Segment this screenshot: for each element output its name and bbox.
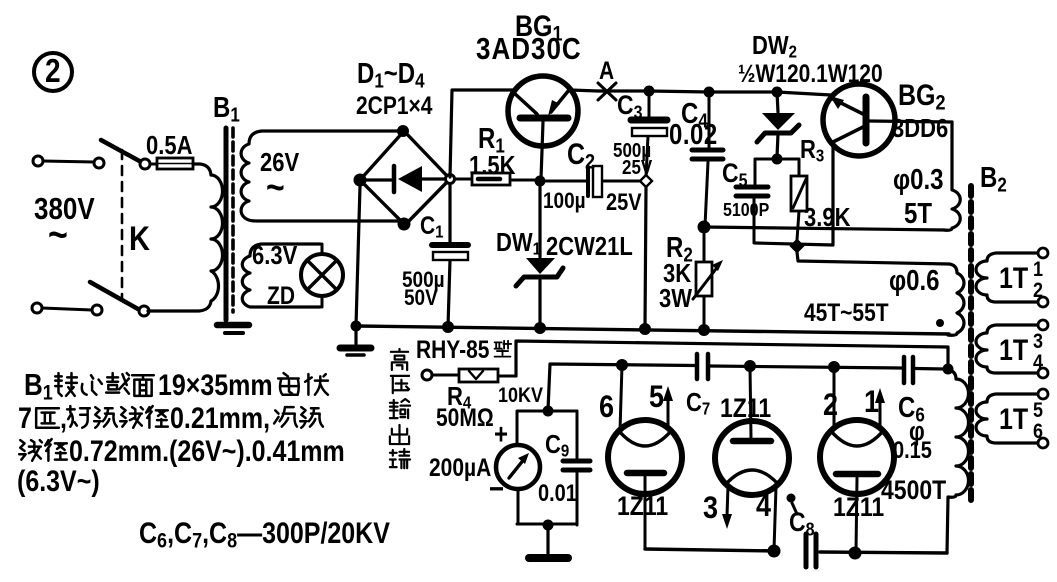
svg-text:A: A [599, 56, 614, 84]
svg-text:6: 6 [599, 389, 614, 425]
capacitor C8 [806, 534, 816, 567]
resistor R4 RHY-85 [432, 369, 516, 382]
svg-text:0.72mm.(26V~).0.41mm: 0.72mm.(26V~).0.41mm [69, 434, 345, 467]
svg-text:5: 5 [649, 379, 664, 415]
svg-text:25V: 25V [622, 156, 653, 179]
diode inside bridge [365, 166, 448, 192]
svg-text:1.5K: 1.5K [469, 151, 516, 180]
node C4 R2 junction [698, 221, 711, 234]
node C4 top [704, 87, 715, 98]
transformer B2 1T winding 1-2 [976, 248, 1048, 307]
svg-text:C6​,C7​,C8​—300P/20KV: C6​,C7​,C8​—300P/20KV [139, 516, 391, 553]
tube U1 1Z11 [608, 365, 682, 549]
transformer B1 core [226, 128, 233, 320]
capacitor C4 [692, 92, 723, 226]
svg-text:5100P: 5100P [723, 199, 770, 221]
svg-text:3DD6: 3DD6 [892, 114, 948, 143]
label C8 with pointer [787, 494, 815, 541]
node tube3 pin2 junction [828, 361, 840, 373]
wire [43, 161, 94, 162]
label 1T pins 3 4 [999, 330, 1043, 375]
wire tubes feed line corner [548, 364, 695, 410]
svg-text:1T: 1T [999, 402, 1028, 435]
label 500u 50V [402, 268, 445, 311]
node meter bottom junction [543, 520, 554, 531]
svg-text:4: 4 [756, 488, 772, 524]
meter 200uA [496, 411, 577, 524]
node DW2 top [772, 87, 783, 98]
svg-text:7: 7 [18, 401, 32, 434]
node R1 C2 DW1 base [535, 176, 546, 187]
svg-text:45T~55T: 45T~55T [804, 298, 889, 326]
transformer B1 6.3V winding [242, 244, 320, 307]
svg-text:RHY-85: RHY-85 [416, 335, 490, 363]
svg-text:0.15: 0.15 [893, 436, 932, 463]
wire C4 junction to 5T winding [704, 227, 944, 230]
svg-text:(6.3V~): (6.3V~) [17, 464, 100, 497]
svg-text:1T: 1T [999, 333, 1028, 366]
node bridge left [354, 174, 367, 187]
resistor R1 [455, 173, 536, 185]
svg-text:2: 2 [45, 53, 61, 90]
wire diamond to feedback winding [797, 252, 949, 264]
figure number 2 [34, 53, 72, 91]
label 26V ~ [260, 148, 299, 208]
node 380V input terminal bottom [32, 303, 42, 313]
label 380V [34, 192, 95, 257]
node switch contact bottom-right [139, 306, 149, 316]
wire tubes bottom line [645, 549, 947, 553]
svg-text:3AD30C: 3AD30C [476, 32, 582, 67]
node diamond R3 bottom [791, 240, 804, 253]
node 380V input terminal top [33, 156, 43, 166]
svg-text:10KV: 10KV [498, 384, 543, 408]
switch K gang linkage dashed [121, 150, 124, 300]
wire C5 bottom to BG2 collector [755, 143, 833, 245]
node tube2 top junction [744, 360, 756, 372]
svg-text:100µ: 100µ [543, 189, 586, 214]
svg-text:50V: 50V [404, 286, 438, 311]
svg-text:1Z11: 1Z11 [833, 492, 884, 522]
svg-text:50MΩ: 50MΩ [436, 403, 494, 431]
capacitor C2 [546, 166, 639, 197]
svg-text:0.01: 0.01 [538, 479, 577, 506]
svg-text:1: 1 [864, 384, 879, 420]
wire BG1 emitter to A bus [570, 90, 598, 91]
svg-text:0.5A: 0.5A [146, 131, 192, 160]
switch K blade top [101, 140, 143, 163]
note line 3: wire dia 0.72mm 26V 0.41mm [19, 434, 345, 467]
svg-text:K: K [129, 219, 150, 258]
capacitor C6 [904, 357, 913, 383]
svg-text:3.9K: 3.9K [804, 203, 851, 232]
svg-text:1T: 1T [999, 261, 1028, 294]
wire top bus [598, 91, 831, 95]
capacitor C1 [432, 184, 468, 327]
svg-text:,: , [60, 401, 67, 434]
label phi 0.15 [893, 417, 932, 463]
svg-text:3: 3 [703, 490, 718, 526]
transformer B2 5T winding [944, 122, 960, 230]
node C3 top [644, 86, 655, 97]
svg-text:ZD: ZD [267, 281, 295, 309]
wire tubes top line [710, 366, 944, 369]
svg-text:19×35mm: 19×35mm [158, 368, 273, 401]
node bridge top [397, 125, 409, 137]
node bus R2 [698, 324, 710, 336]
svg-text:+: + [494, 418, 508, 450]
node bus C1 [442, 321, 454, 333]
label RHY-85 type [416, 335, 511, 363]
transformer B2 core [968, 186, 974, 505]
svg-text:0.21mm,: 0.21mm, [170, 401, 270, 434]
svg-text:2CW21L: 2CW21L [546, 232, 633, 261]
transistor BG2 [823, 84, 952, 156]
node tube2 pin4 bottom [768, 545, 781, 558]
node C6 4500T junction [943, 364, 954, 375]
transformer B2 4500T winding [947, 370, 968, 553]
transformer B2 1T winding 3-4 [976, 320, 1048, 378]
node A test point [598, 56, 616, 100]
tube U3 1Z11 [820, 367, 894, 552]
node switch contact top-right [140, 159, 150, 169]
svg-text:~: ~ [266, 167, 285, 209]
tube U2 1Z11 [715, 366, 789, 550]
node C8 tube3 bottom [849, 547, 862, 560]
svg-text:6: 6 [1033, 420, 1043, 444]
wire BG1 collector to bridge node [450, 90, 513, 177]
svg-text:1Z11: 1Z11 [720, 393, 771, 423]
capacitor C5 [736, 159, 777, 243]
resistor R3 [777, 159, 807, 240]
node switch contact top-left [94, 158, 104, 168]
label 500u 25V (C3) [613, 139, 653, 179]
node bus left [351, 321, 362, 332]
svg-text:25V: 25V [606, 188, 642, 215]
ground meter [529, 525, 568, 558]
svg-text:φ0.3: φ0.3 [893, 163, 944, 195]
rheostat R2 [693, 233, 723, 329]
bridge rectifier D1-D4 [360, 131, 450, 225]
zener DW2 [757, 92, 799, 157]
svg-text:2: 2 [1033, 279, 1043, 303]
wire bridge left to ground bus [356, 186, 360, 326]
svg-text:φ0.6: φ0.6 [889, 264, 940, 296]
svg-text:2CP1×4: 2CP1×4 [356, 91, 433, 119]
transformer B2 1T winding 5-6 [976, 389, 1048, 448]
wire 10KV high voltage line [516, 341, 948, 376]
wire C3 node to ground bus [645, 187, 646, 327]
node tube1 pin6 junction [616, 359, 628, 371]
transistor BG1 [508, 76, 578, 179]
lamp ZD [301, 244, 343, 307]
svg-text:200µA: 200µA [429, 453, 491, 481]
svg-text:D1​~D4​: D1​~D4​ [357, 57, 425, 92]
transformer B2 45T winding [948, 264, 964, 335]
ground B1 core [217, 325, 249, 333]
svg-text:4: 4 [1033, 351, 1043, 375]
svg-text:6.3V: 6.3V [252, 241, 297, 270]
fuse 0.5A [150, 158, 193, 169]
node polarity dot [936, 319, 944, 327]
label 1T pins 1 2 [999, 258, 1043, 303]
node meter top junction [543, 406, 554, 417]
ground at bus left [340, 326, 371, 355]
transformer B1 primary winding [148, 164, 223, 311]
capacitor C3 [631, 92, 667, 177]
svg-text:4500T: 4500T [881, 475, 947, 505]
capacitor C7 [697, 354, 708, 379]
label HV output terminal vertical text [390, 349, 410, 468]
node bridge right [446, 175, 455, 184]
svg-text:3W: 3W [659, 284, 692, 313]
note line 2: 7 turns primary wire 0.21mm [18, 401, 323, 434]
node HV output terminal [422, 370, 432, 380]
node switch contact bottom-left [92, 305, 102, 315]
svg-text:5T: 5T [904, 197, 932, 229]
svg-text:1Z11: 1Z11 [617, 491, 668, 521]
zener DW1 [516, 187, 563, 326]
node DW2 bottom junction [772, 154, 783, 165]
svg-text:2: 2 [823, 387, 838, 423]
node bridge bottom [398, 218, 411, 231]
note line 1: B1 core 19x35mm per volt [24, 368, 328, 405]
node bus C3 line [639, 323, 651, 335]
switch K blade bottom [90, 282, 138, 309]
wire ground bus [356, 326, 949, 334]
wire [42, 308, 92, 310]
svg-text:~: ~ [48, 211, 68, 256]
svg-text:0.02: 0.02 [669, 118, 718, 150]
node bus DW1 [534, 322, 546, 334]
node diamond C2 C3 [640, 175, 652, 187]
transformer B1 26V secondary winding [241, 131, 404, 221]
label 1T pins 5 6 [999, 399, 1043, 444]
label 3K 3W [659, 259, 692, 313]
capacitor C9 [563, 411, 590, 525]
